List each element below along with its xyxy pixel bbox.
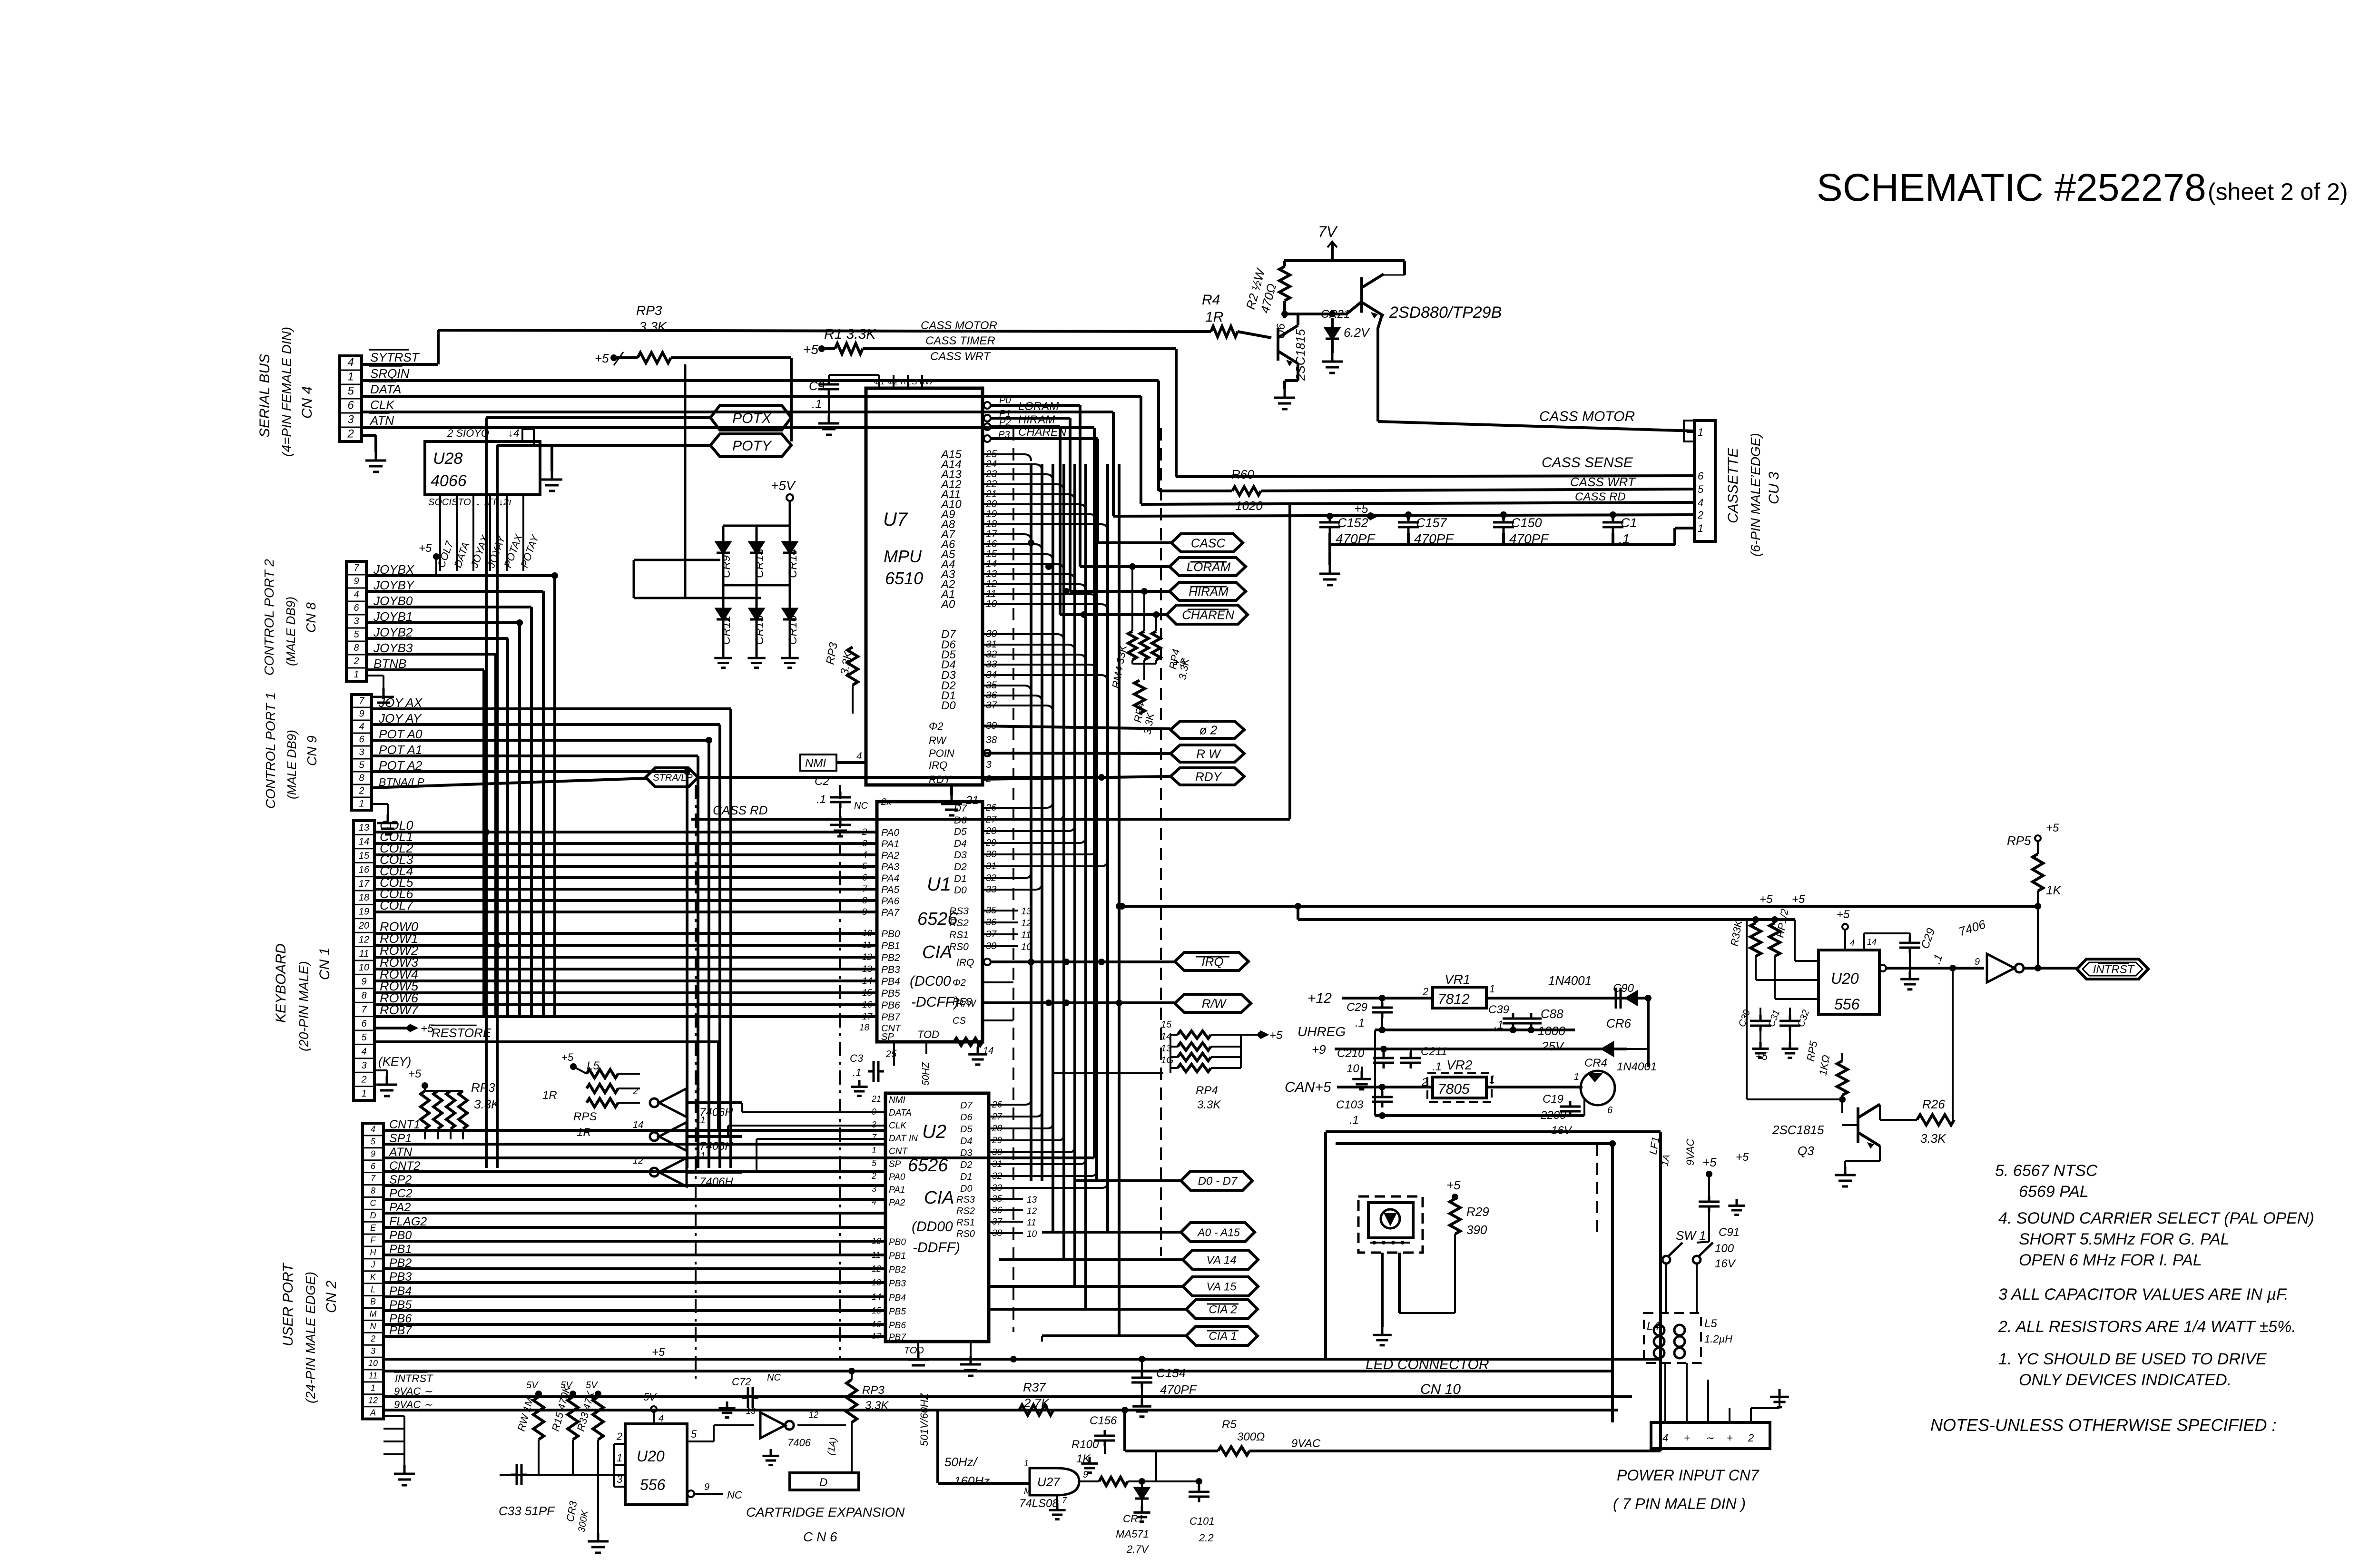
svg-text:C19: C19 [1543, 1093, 1563, 1106]
wire A0 [983, 604, 1108, 611]
connector CN1 keyboard cell [354, 848, 374, 849]
svg-text:COL7: COL7 [380, 898, 414, 912]
svg-text:1: 1 [1024, 1459, 1029, 1468]
regulator VR1 7812 [1433, 987, 1486, 1008]
wire POT A2 [372, 770, 687, 773]
wire stair b1 [727, 1126, 729, 1137]
wire C157 bottom [1407, 533, 1410, 545]
svg-text:CIA 2: CIA 2 [1209, 1303, 1237, 1316]
svg-text:(DD00: (DD00 [912, 1219, 953, 1235]
wire CR13 top [756, 526, 758, 542]
wire RESTORE-NMI long to RP5 [1122, 905, 2038, 908]
wire ROW0 [374, 932, 877, 935]
connector CN2 user port cell [363, 1369, 383, 1371]
wire CHAREN [1060, 613, 1167, 616]
wire U7 pin 29 [991, 437, 1098, 440]
capacitor C3 [868, 1061, 884, 1082]
capacitor C90x [1610, 988, 1626, 1009]
junction [1380, 1046, 1387, 1052]
wire top rail [1284, 259, 1405, 262]
wire U1 RS1 [983, 933, 1018, 935]
wire U2 D6 [989, 1111, 1042, 1117]
wire ROW7 [374, 1015, 877, 1018]
wire CN7 gnd rise [1779, 1396, 1780, 1408]
connector CN2 user port cell [363, 1172, 383, 1173]
svg-text:D5: D5 [954, 826, 967, 837]
svg-text:CASS RD: CASS RD [713, 803, 768, 817]
junction [1139, 1356, 1145, 1362]
junction [1116, 903, 1122, 910]
svg-text:C29: C29 [1347, 1001, 1367, 1014]
svg-text:SCHEMATIC #252278: SCHEMATIC #252278 [1817, 166, 2206, 209]
svg-text:15: 15 [862, 988, 873, 998]
wire CN2 +5 long [383, 1358, 1661, 1361]
wire RP4 row feed [1054, 1072, 1163, 1074]
svg-text:10: 10 [862, 929, 873, 939]
svg-text:RS2: RS2 [956, 1206, 975, 1216]
svg-text:2: 2 [353, 656, 359, 666]
svg-text:6: 6 [1698, 470, 1704, 482]
wire DIN down [1583, 1099, 1585, 1116]
junction [422, 1082, 428, 1089]
connector CN2 user port cell [363, 1344, 383, 1346]
connector CN1 keyboard cell [354, 834, 374, 835]
net label RESTORE overline [431, 1025, 477, 1026]
wire R15 bottom [572, 1440, 574, 1475]
svg-text:9: 9 [371, 1149, 375, 1158]
wire C31 top [1789, 1008, 1791, 1015]
wire +5 feed vertical x1440 [684, 364, 687, 598]
svg-text:5: 5 [359, 760, 364, 770]
wire RP3 left [614, 356, 638, 359]
svg-text:3.3K: 3.3K [1920, 1131, 1946, 1146]
resistor RP4 row 1 [1178, 1031, 1211, 1039]
connector CN1 keyboard cell [354, 918, 374, 919]
svg-text:9VAC ∼: 9VAC ∼ [394, 1399, 433, 1411]
wire U1 phi2 [983, 981, 1013, 983]
svg-text:4: 4 [659, 1413, 664, 1424]
svg-text:11: 11 [1021, 930, 1031, 941]
wire RP4 row stub [1170, 1046, 1178, 1048]
wire LORAM [1080, 565, 1170, 568]
wire RP3 bottom x893 [424, 1129, 426, 1139]
svg-text:(KEY): (KEY) [378, 1054, 411, 1068]
wire DATA [362, 395, 1141, 398]
junction [551, 572, 558, 579]
svg-text:IRQ: IRQ [929, 759, 947, 771]
wire JOY AY drop [718, 725, 721, 1168]
svg-text:D4: D4 [960, 1136, 973, 1147]
svg-text:7: 7 [361, 1004, 367, 1015]
svg-text:17: 17 [862, 1012, 873, 1022]
svg-text:1: 1 [361, 1088, 366, 1099]
svg-text:+5: +5 [595, 351, 609, 365]
wire CIA1 drop [1041, 1336, 1043, 1342]
svg-text:9: 9 [704, 1482, 709, 1492]
svg-text:C152: C152 [1337, 516, 1368, 530]
wire RP4 row stub [1170, 1067, 1178, 1069]
wire CN7 to L4 [1664, 1363, 1666, 1408]
IC U20 556 timer A [1819, 950, 1879, 1014]
svg-text:ROW7: ROW7 [380, 1003, 419, 1017]
junction [1281, 311, 1288, 317]
wire stair c2 [757, 1138, 885, 1140]
connector CN9 cell [352, 720, 372, 721]
resistor RPS element 1 [587, 1069, 618, 1078]
svg-text:CU 3: CU 3 [1766, 471, 1782, 504]
wire Q6 collector up [1297, 314, 1299, 325]
wire inv cart out [797, 1424, 846, 1426]
wire RP3 cart top [851, 1371, 853, 1380]
wire pullup join a [1131, 660, 1133, 664]
wire D5 [983, 655, 1086, 661]
svg-text:RW: RW [929, 735, 947, 746]
wire COL0 [374, 831, 877, 833]
wire C152 top [1328, 516, 1331, 519]
svg-text:556: 556 [1834, 996, 1860, 1013]
ground CR21 [1322, 353, 1343, 373]
svg-text:2SC1815: 2SC1815 [1772, 1123, 1824, 1137]
pin CN10 [1401, 1241, 1405, 1245]
wire cass +5 [1113, 515, 1694, 516]
junction [1452, 1194, 1458, 1200]
wire CN2 PB5 [383, 1309, 885, 1312]
svg-text:3.3K: 3.3K [865, 1399, 889, 1412]
connector A/V DIN [1581, 1071, 1615, 1105]
pin U7 top 3 [907, 375, 909, 388]
wire RP4 row out [1241, 1034, 1261, 1036]
bus vertical x2236 [1062, 464, 1065, 1260]
wire U20b out5 [687, 1441, 714, 1442]
wire CR9 top [722, 526, 725, 542]
svg-text:D6: D6 [960, 1112, 973, 1123]
junction [2035, 903, 2041, 910]
svg-text:VA 15: VA 15 [1206, 1281, 1237, 1294]
svg-text:PB5: PB5 [881, 988, 900, 999]
wire R1 to cass sense [863, 347, 1176, 350]
ground CR16 [781, 651, 798, 668]
svg-text:DATA: DATA [370, 382, 401, 396]
junction [706, 737, 712, 744]
svg-text:13: 13 [1027, 1195, 1037, 1205]
wire JOYB3 [366, 653, 496, 656]
svg-text:Φ1 Φ2 RES RW: Φ1 Φ2 RES RW [874, 377, 934, 386]
ground C154 [1132, 1399, 1151, 1417]
ground Q3 [1835, 1166, 1856, 1186]
wire left rail join [1374, 1030, 1376, 1116]
wire power rail A drop [1324, 1132, 1327, 1359]
wire RP1 down [1774, 956, 1776, 999]
svg-text:P2: P2 [999, 417, 1011, 428]
connector CN9 cell [352, 758, 372, 760]
wire cap gnd [1328, 545, 1331, 565]
wire to U20 pin2 [1775, 998, 1819, 1000]
ground U2 b [960, 1356, 981, 1376]
svg-text:CASS WRT: CASS WRT [930, 350, 992, 363]
svg-text:PA1: PA1 [889, 1185, 905, 1195]
node VA15 [1183, 1277, 1258, 1296]
junction [1645, 995, 1652, 1001]
svg-text:C156: C156 [1090, 1414, 1117, 1427]
svg-text:CASS WRT: CASS WRT [1570, 475, 1636, 489]
wire U2 gnd2 [970, 1342, 972, 1356]
wire SW1 A down [1665, 1264, 1667, 1313]
wire D7 [983, 634, 1064, 641]
ground CR12 [714, 651, 732, 668]
terminal U20a +5 circle [1842, 924, 1848, 930]
junction [494, 942, 501, 949]
wire POT A2 drop [686, 772, 688, 1168]
svg-text:14: 14 [359, 837, 369, 847]
wire +5V to diode rail [789, 501, 791, 526]
wire SRQIN [362, 379, 1159, 382]
svg-text:D2: D2 [954, 862, 967, 872]
wire A9 [983, 514, 1097, 521]
pin CN3 6 [1687, 475, 1694, 477]
svg-text:INTRST: INTRST [2093, 963, 2135, 976]
wire R33 bottom [597, 1440, 599, 1475]
svg-text:U2: U2 [922, 1121, 946, 1142]
svg-text:CASS TIMER: CASS TIMER [925, 334, 995, 347]
wire CN2 PB3 [383, 1281, 885, 1284]
inverter 7406 C [650, 1158, 687, 1186]
svg-text:PB6: PB6 [881, 1000, 900, 1011]
connector CN9 cell [352, 745, 372, 747]
junction [1949, 965, 1956, 971]
wire U20b left join [613, 1444, 615, 1487]
svg-text:C33 51PF: C33 51PF [499, 1504, 555, 1518]
wire U1 tod stub [925, 1042, 927, 1054]
svg-text:3.3K: 3.3K [474, 1097, 500, 1111]
junction [1295, 903, 1301, 910]
svg-text:RESTORE: RESTORE [432, 1026, 492, 1040]
wire Q3 emitter [1879, 1146, 1881, 1161]
resistor R60 [1232, 487, 1261, 495]
wire D880 collector2 [1382, 274, 1405, 276]
node PHI2 [1170, 721, 1244, 738]
wire D3 [983, 675, 1108, 682]
svg-text:C2: C2 [815, 775, 829, 788]
connector CN8 cell [346, 601, 366, 602]
wire POTX [486, 416, 710, 419]
svg-text:5: 5 [371, 1137, 376, 1147]
svg-text:RES: RES [953, 997, 973, 1007]
svg-text:1: 1 [1489, 983, 1495, 995]
wire C211 top [1410, 1049, 1412, 1052]
junction [1129, 563, 1136, 570]
svg-text:R1 3.3K: R1 3.3K [824, 326, 876, 342]
wire to U20 pin [1756, 979, 1819, 981]
wire JOYBY [366, 590, 543, 593]
wire RESTORE drop [717, 1042, 720, 1132]
svg-text:8: 8 [361, 990, 366, 1001]
junction [2035, 965, 2041, 971]
pin CN7 5 [1750, 1408, 1752, 1422]
wire U7 pin 26 [991, 425, 1060, 428]
wire A1 [983, 594, 1097, 601]
pin CN3 5 [1687, 488, 1694, 490]
wire CN1 gnd [374, 1069, 387, 1071]
svg-text:NC: NC [767, 1372, 781, 1383]
wire loop bottom [938, 1482, 1030, 1485]
wire power rail A right drop [1659, 1132, 1662, 1451]
wire 9VAC b [383, 1409, 1618, 1411]
regulator VR2 7805 [1433, 1077, 1486, 1098]
svg-text:C39: C39 [1488, 1003, 1509, 1016]
wire net to U20b [1795, 960, 1819, 962]
wire CN8 gnd [366, 675, 383, 676]
bus vertical x2328 [1106, 464, 1109, 1232]
switch SW1 pole A [1662, 1243, 1682, 1264]
svg-text:1: 1 [347, 371, 354, 383]
svg-text:DATA: DATA [889, 1108, 912, 1118]
connector CN1 keyboard cell [354, 1016, 374, 1017]
wire diode array feed a [634, 559, 720, 561]
resistor RP4 row 4 [1178, 1064, 1211, 1072]
wire CLK [362, 411, 1113, 413]
svg-text:RS3: RS3 [949, 906, 969, 917]
wire CN2 PC2 [383, 1198, 885, 1201]
svg-text:PA4: PA4 [881, 873, 899, 884]
svg-text:LED CONNECTOR: LED CONNECTOR [1366, 1357, 1489, 1372]
wire CN2 gnd join [403, 1416, 405, 1454]
IC U20 556 timer B [625, 1424, 687, 1505]
svg-text:3: 3 [371, 1346, 375, 1356]
svg-text:1K: 1K [2046, 883, 2062, 897]
wire stair a1 [741, 1103, 743, 1112]
wire pullup to RP4b [1143, 664, 1145, 680]
capacitor C33 [511, 1464, 527, 1485]
diode CR12 [717, 609, 730, 619]
wire Q3 to R26 [1880, 1119, 1917, 1121]
svg-text:CARTRIDGE EXPANSION: CARTRIDGE EXPANSION [746, 1505, 905, 1519]
svg-text:7V: 7V [1318, 223, 1338, 240]
svg-text:(sheet 2 of 2): (sheet 2 of 2) [2208, 178, 2348, 205]
pin U7 27 [984, 415, 991, 421]
wire Q6 emitter2 [1285, 379, 1298, 382]
ground U27 [1049, 1503, 1065, 1519]
resistor pullup x2380 [1128, 631, 1137, 660]
regulator VR2 7805 outer [1427, 1073, 1492, 1102]
svg-text:18: 18 [359, 892, 369, 903]
svg-text:10: 10 [1347, 1062, 1359, 1075]
svg-text:3: 3 [359, 747, 364, 757]
wire C150 top [1502, 515, 1505, 519]
svg-text:E: E [370, 1223, 376, 1233]
svg-text:3: 3 [862, 839, 867, 849]
wire ROW4 [374, 980, 877, 982]
svg-text:1: 1 [1698, 426, 1703, 438]
resistor R33K [1750, 923, 1761, 956]
wire U28 JOYAX [472, 495, 474, 571]
svg-text:3: 3 [347, 413, 354, 426]
wire C29b top [1381, 998, 1383, 1002]
bus vertical dashed x2440 [1160, 428, 1162, 1256]
ground CN10 [1373, 1327, 1392, 1345]
wire ROW3 [374, 968, 877, 970]
svg-text:H: H [370, 1248, 377, 1257]
wire R100 out [1128, 1480, 1156, 1482]
wire CIA2 [989, 1308, 1186, 1311]
wire to R33K pullups [1298, 918, 1795, 921]
wire C91-SW1 [1697, 1242, 1709, 1243]
svg-text:RDY: RDY [929, 774, 952, 785]
svg-text:USER PORT: USER PORT [280, 1262, 296, 1346]
svg-text:6: 6 [862, 873, 867, 883]
svg-text:PB7: PB7 [881, 1012, 901, 1023]
svg-text:4: 4 [347, 356, 354, 369]
wire POTX drop [485, 418, 488, 1168]
capacitor C29b [1372, 1002, 1393, 1018]
wire CN2 SP1 [383, 1143, 885, 1146]
wire C9 lead [828, 375, 830, 379]
svg-text:10: 10 [368, 1359, 378, 1368]
wire COL7 [374, 911, 877, 913]
wire CR9 bottom [722, 553, 725, 585]
wire RESTORE [374, 1040, 718, 1043]
svg-text:8: 8 [359, 773, 364, 783]
svg-text:50HZ: 50HZ [921, 1062, 931, 1086]
svg-text:9: 9 [862, 907, 867, 917]
wire JOYB1 [366, 621, 520, 624]
diode CR21 zener [1326, 328, 1339, 339]
connector CN9 cell [352, 733, 372, 734]
svg-text:10: 10 [359, 962, 369, 973]
connector CN2 user port cell [363, 1393, 383, 1395]
wire CN2 PB0 [383, 1240, 885, 1243]
wire C154 [1141, 1359, 1143, 1372]
svg-text:15: 15 [1161, 1019, 1172, 1030]
wire U2 RS3 [989, 1198, 1023, 1200]
wire RP4 row stub [1170, 1034, 1178, 1036]
connector CN2 user port cell [363, 1381, 383, 1382]
svg-text:8: 8 [862, 896, 867, 906]
wire D880 emitter [1378, 316, 1382, 328]
junction [1528, 1027, 1534, 1033]
svg-text:5: 5 [691, 1428, 697, 1440]
connector CN2 user port cell [363, 1283, 383, 1284]
wire cap rail to pin1 [1673, 528, 1676, 545]
junction [1405, 511, 1412, 518]
svg-text:CIA: CIA [922, 942, 952, 962]
ground CN7 [1770, 1389, 1789, 1407]
svg-text:4: 4 [856, 751, 862, 762]
svg-text:PA0: PA0 [881, 827, 899, 838]
node CIA1 [1186, 1326, 1258, 1345]
wire U2 D5 [989, 1123, 1053, 1128]
wire R37 drop [1123, 1410, 1126, 1451]
resistor R1 [835, 343, 863, 354]
pin U7 26 [984, 423, 991, 430]
wire C9 gnd [828, 395, 830, 415]
junction [1379, 1027, 1386, 1033]
wire JOYB3 drop [494, 654, 497, 1016]
inverter 7406 cart [760, 1412, 794, 1438]
diode CR13 [750, 542, 763, 553]
svg-text:NMI: NMI [805, 757, 826, 770]
svg-text:MPU: MPU [884, 547, 922, 566]
junction [1063, 588, 1070, 595]
svg-text:CONTROL PORT 1: CONTROL PORT 1 [263, 692, 278, 809]
wire RP4 row 1 [1211, 1034, 1241, 1036]
junction [1379, 1084, 1386, 1090]
wire JOYB2 [366, 637, 508, 640]
svg-text:RP3: RP3 [636, 303, 662, 318]
svg-text:2. ALL RESISTORS ARE 1/4 WAT: 2. ALL RESISTORS ARE 1/4 WATT ±5%. [1998, 1318, 2296, 1336]
svg-text:D0: D0 [941, 699, 956, 712]
wire CN10 to R29 [1399, 1312, 1455, 1314]
svg-text:1: 1 [1698, 522, 1703, 534]
